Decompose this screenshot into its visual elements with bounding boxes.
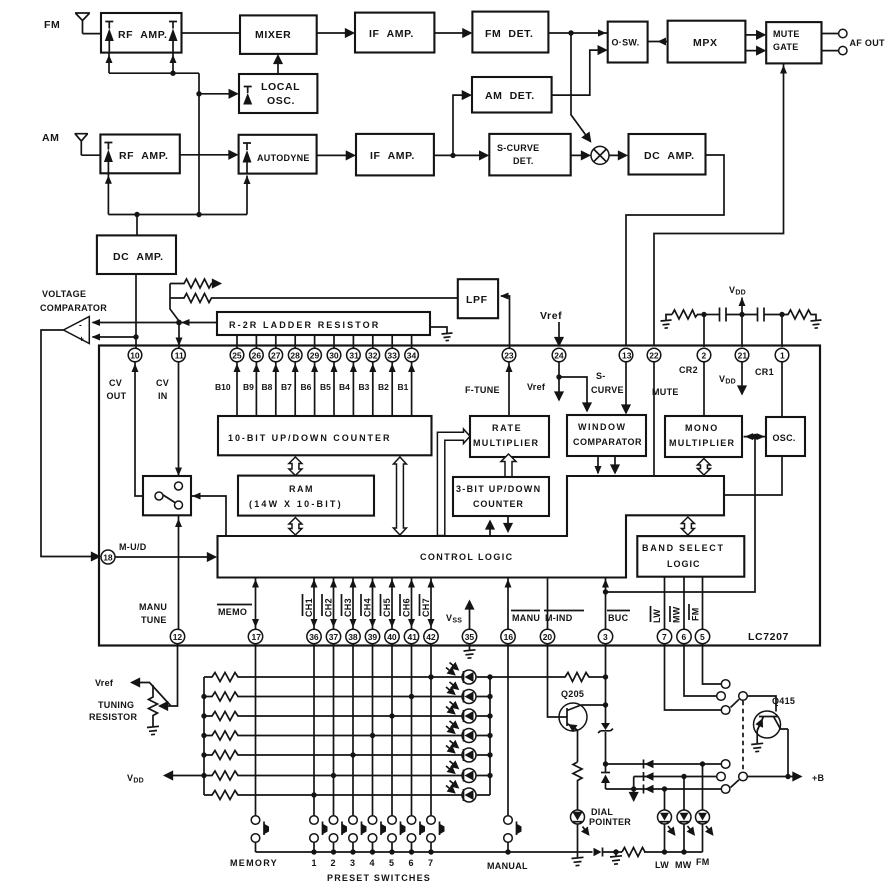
IC LC7207 outline	[99, 346, 820, 646]
wire 3-bit counter to control logic pair	[490, 516, 508, 536]
block MIXER	[240, 15, 317, 54]
wire AM antenna to RF amp	[81, 154, 100, 156]
svg-text:5: 5	[389, 858, 394, 868]
wire comparator non-inverting input	[92, 334, 137, 341]
wire IF AMP (AM) output	[434, 154, 488, 156]
wire pin 2 CR2 to mono multiplier	[703, 362, 705, 416]
transistor Q415	[754, 696, 796, 738]
svg-text:Vref: Vref	[95, 678, 114, 688]
wire band select to pin 5 FM	[702, 577, 704, 630]
switch preset 7	[427, 816, 445, 852]
svg-text:B10: B10	[215, 382, 231, 392]
svg-text:MUTE: MUTE	[652, 387, 679, 397]
svg-text:11: 11	[175, 350, 184, 360]
wire CH4 line pin 39	[369, 578, 376, 630]
wire AM tuning rail	[108, 173, 247, 214]
svg-text:B8: B8	[262, 382, 273, 392]
svg-text:(14W X 10-BIT): (14W X 10-BIT)	[249, 499, 343, 509]
wire comparator output to pin 18	[41, 330, 100, 557]
wire switched line 2 (middle)	[634, 776, 717, 778]
svg-text:RESISTOR: RESISTOR	[89, 712, 137, 722]
svg-text:3: 3	[350, 858, 355, 868]
block DC AMP (left)	[97, 235, 176, 274]
bus arrow 3-bit counter to rate multiplier	[501, 454, 516, 477]
svg-text:+: +	[79, 334, 84, 344]
wire pin 20 M-IND line	[547, 578, 549, 630]
svg-text:6: 6	[409, 858, 414, 868]
svg-text:MANU: MANU	[512, 613, 540, 623]
svg-text:26: 26	[252, 350, 262, 360]
wire pin 3 BUC to control logic	[602, 578, 609, 630]
block IF AMP (FM)	[355, 13, 434, 53]
svg-text:23: 23	[504, 350, 514, 360]
svg-text:MULTIPLIER: MULTIPLIER	[473, 438, 539, 448]
svg-text:+B: +B	[812, 773, 825, 783]
wire S-CURVE DET to mixer node	[571, 154, 590, 156]
resistor R19 (Q205 emitter)	[573, 762, 582, 810]
wire mono multiplier to osc bidirectional	[744, 433, 766, 440]
block RATE MULTIPLIER	[470, 416, 549, 457]
pin 16	[501, 629, 515, 643]
svg-text:DC AMP.: DC AMP.	[644, 150, 695, 162]
svg-text:42: 42	[426, 632, 436, 642]
pin 23	[502, 348, 516, 362]
LED D18 dial pointer	[571, 810, 589, 835]
svg-text:M-U/D: M-U/D	[119, 542, 147, 552]
pin 42	[424, 629, 438, 643]
node BUC column top junction	[603, 674, 608, 679]
resistor R15 (row 5)	[204, 751, 462, 760]
resistor R16 (row 6)	[204, 771, 462, 780]
resistor R11 (row 1)	[204, 673, 462, 682]
wiper arrow into tuning resistor	[160, 705, 172, 707]
wire pin 21 VDD stub	[741, 362, 743, 394]
wire LED cathode bus	[476, 677, 490, 795]
wire pin 7 to band switch LW contact	[665, 644, 722, 710]
node LW label	[651, 606, 663, 623]
block FM DET	[472, 12, 548, 53]
LED D15	[446, 741, 476, 763]
node M-IND label	[544, 611, 584, 624]
svg-text:CONTROL LOGIC: CONTROL LOGIC	[420, 552, 514, 562]
svg-text:RF AMP.: RF AMP.	[119, 150, 169, 162]
node FM label (pin 5)	[689, 604, 701, 621]
wire column pin 40 to preset 5	[391, 644, 393, 816]
wire AM RF AMP to AUTODYNE	[180, 154, 237, 156]
wire comparator inverting input	[92, 319, 180, 326]
svg-text:5: 5	[700, 632, 705, 642]
wire band switch pole to Q415	[747, 696, 776, 712]
resistor R18 (LED bus to BUC)	[490, 673, 606, 682]
svg-text:MULTIPLIER: MULTIPLIER	[669, 438, 735, 448]
svg-text:TUNING: TUNING	[98, 700, 134, 710]
wire column pin 42 to preset 7	[430, 644, 432, 816]
resistor R4 (CR1)	[782, 310, 816, 321]
wire R-2R output to CV IN junction	[181, 319, 217, 326]
node pin 2 junction	[701, 312, 706, 317]
svg-text:7: 7	[428, 858, 433, 868]
wire R-2R ladder taps to pins 25-34	[237, 335, 412, 348]
svg-text:CH5: CH5	[382, 598, 392, 617]
node CV IN junction	[176, 320, 182, 326]
wire VDD to pin 21	[739, 298, 746, 348]
wire tuning bus vertical	[198, 73, 200, 214]
arrowhead into AUTODYNE	[244, 176, 251, 185]
wire Q415 emitter to ground	[756, 731, 758, 745]
node IF AM junction	[450, 153, 455, 158]
svg-text:MANUAL: MANUAL	[487, 861, 528, 871]
wire pin 24 Vref branch	[556, 362, 587, 411]
wire pin 35 Vss stub	[469, 601, 471, 629]
wire pin 13 S-CURVE to window comparator	[625, 362, 627, 413]
terminal AF OUT lower	[822, 46, 848, 54]
svg-text:VDD: VDD	[127, 773, 144, 785]
svg-text:1: 1	[312, 858, 317, 868]
block OSC	[766, 417, 805, 456]
node MW lamp junction	[681, 774, 686, 779]
resistor R12 (row 2)	[204, 692, 462, 701]
resistor R14 (row 4)	[204, 731, 462, 740]
svg-text:34: 34	[407, 350, 417, 360]
block 10-BIT UP/DOWN COUNTER	[218, 416, 432, 455]
pin 31	[347, 348, 361, 362]
switch preset 4	[368, 816, 386, 852]
wire zener to diode	[605, 732, 607, 773]
wire pin 20 to Q205 base	[548, 644, 568, 717]
svg-text:VDD: VDD	[729, 285, 746, 297]
wire CH7 line pin 42	[428, 578, 435, 630]
resistor R13 (row 3)	[204, 712, 462, 721]
svg-text:3: 3	[603, 632, 608, 642]
node matrix junction dots	[311, 674, 433, 797]
svg-text:17: 17	[252, 632, 262, 642]
wire pin 16 MANU line	[505, 578, 512, 630]
pin 7	[657, 629, 671, 643]
svg-text:33: 33	[387, 350, 397, 360]
svg-text:B6: B6	[301, 382, 312, 392]
svg-text:M-IND: M-IND	[545, 613, 573, 623]
block LPF	[458, 279, 498, 318]
svg-text:10: 10	[130, 350, 140, 360]
wire junction down to pin 2	[703, 315, 705, 348]
block 3-BIT UP/DOWN COUNTER	[453, 477, 549, 516]
wire R3 to C1	[704, 314, 720, 316]
block WINDOW COMPARATOR	[567, 415, 646, 456]
svg-text:20: 20	[543, 632, 553, 642]
wire CH3 line pin 38	[350, 578, 357, 630]
pin 28	[288, 348, 302, 362]
wire AUTODYNE to IF AMP (AM)	[317, 154, 355, 156]
diode D23 (line 3)	[644, 785, 654, 794]
svg-text:B2: B2	[378, 382, 389, 392]
svg-text:IF AMP.: IF AMP.	[370, 150, 415, 162]
node FM DET output junction	[568, 30, 573, 35]
wire CH1 line pin 36	[311, 578, 318, 630]
svg-text:13: 13	[622, 350, 632, 360]
pin 6	[677, 629, 691, 643]
wire pin 18 M-U/D to control logic	[115, 556, 216, 558]
svg-text:IN: IN	[158, 391, 168, 401]
tuning resistor VR1 (potentiometer)	[149, 685, 158, 727]
svg-text:38: 38	[348, 632, 358, 642]
pin 18	[101, 550, 115, 564]
pin 39	[365, 629, 379, 643]
pin 12	[170, 629, 184, 643]
op-amp U1 voltage comparator	[64, 317, 90, 344]
svg-text:12: 12	[173, 632, 183, 642]
svg-text:DET.: DET.	[513, 156, 534, 166]
node CH6 label	[400, 594, 412, 617]
wire R-2R right to ground	[430, 327, 447, 333]
LED D24 LW lamp	[658, 789, 675, 852]
svg-text:MW: MW	[675, 860, 692, 870]
svg-text:RATE: RATE	[492, 423, 522, 433]
svg-text:CV: CV	[109, 378, 122, 388]
wire pin 10 CV OUT down to switch	[132, 362, 155, 496]
svg-text:1: 1	[780, 350, 785, 360]
wire pin 5 to band switch FM contact	[703, 644, 722, 684]
ground (R-2R)	[442, 333, 453, 341]
svg-text:CR2: CR2	[679, 365, 698, 375]
pin 1	[775, 348, 789, 362]
resistor R3 (CR2)	[672, 310, 704, 319]
svg-text:MPX: MPX	[693, 37, 718, 49]
svg-text:27: 27	[271, 350, 281, 360]
pin 13	[619, 348, 633, 362]
mixer circle (multiplier)	[591, 146, 609, 164]
band switch S2 (upper)	[717, 680, 748, 715]
block AM RF AMP	[100, 135, 179, 174]
wire pin 12 to tuning resistor wiper	[171, 644, 178, 706]
wire RF AMP to MIXER	[182, 32, 241, 34]
wire junction down to pin 1	[781, 315, 783, 348]
wire pin 22 MUTE down to control logic	[653, 362, 655, 476]
wire DC AMP output to pin 13	[626, 155, 724, 346]
antenna FM	[75, 13, 90, 34]
svg-text:MUTE: MUTE	[773, 29, 800, 39]
wire switched line 1 (upper)	[606, 763, 722, 765]
switch preset 5	[388, 816, 406, 852]
svg-text:DIAL: DIAL	[591, 807, 613, 817]
svg-text:2: 2	[331, 858, 336, 868]
node CH4 label	[361, 594, 373, 617]
wire dial LED to ground	[577, 824, 579, 858]
LED D12	[446, 682, 476, 704]
svg-text:B4: B4	[339, 382, 350, 392]
svg-text:FM: FM	[691, 607, 701, 621]
ground (rail)	[610, 852, 622, 864]
wire DC AMP down to pin 10	[135, 274, 137, 348]
node pin 1 junction	[779, 312, 784, 317]
bus arrow control logic to band select	[681, 517, 694, 535]
wire CH5 line pin 40	[389, 578, 396, 630]
svg-text:MEMORY: MEMORY	[230, 858, 278, 868]
block MONO MULTIPLIER	[665, 416, 742, 457]
svg-text:7: 7	[662, 632, 667, 642]
svg-text:O·SW.: O·SW.	[612, 38, 640, 48]
svg-text:AF OUT: AF OUT	[850, 38, 885, 48]
svg-text:LPF: LPF	[466, 294, 488, 306]
svg-text:2: 2	[702, 350, 707, 360]
LED D14	[446, 721, 476, 743]
wire band switch pole to +B	[747, 776, 801, 778]
svg-text:WINDOW: WINDOW	[578, 422, 627, 432]
svg-text:37: 37	[329, 632, 339, 642]
pin 5	[695, 629, 709, 643]
pin 33	[385, 348, 399, 362]
wire column pin 38 to preset 3	[352, 644, 354, 816]
pin 38	[346, 629, 360, 643]
ground (dial pointer)	[572, 857, 584, 865]
svg-text:VSS: VSS	[446, 613, 462, 625]
switch preset 6	[407, 816, 425, 852]
terminal AF OUT upper	[822, 29, 848, 37]
pin 37	[326, 629, 340, 643]
svg-text:PRESET SWITCHES: PRESET SWITCHES	[327, 873, 431, 883]
svg-text:AM: AM	[42, 132, 60, 144]
varactor D2 (FM RF AMP right)	[169, 22, 178, 53]
block MUTE GATE	[766, 22, 821, 63]
wire pin 23 F-TUNE to rate multiplier	[506, 362, 513, 416]
LED D25 MW lamp	[677, 777, 694, 853]
block DC AMP (AM)	[629, 134, 706, 175]
wire column pin 37 to preset 2	[333, 644, 335, 816]
switch preset 3	[349, 816, 367, 852]
wire FM DET junction down to mixer	[571, 33, 591, 142]
wire tap to LOCAL OSC	[199, 93, 237, 95]
varactor D4 (AM RF AMP)	[104, 143, 113, 174]
diode D27 (rail)	[594, 848, 603, 857]
wire FM RF AMP varactor feeds to tuning rail	[106, 53, 177, 74]
wire Q415 collector to +B line	[787, 729, 789, 777]
svg-text:B7: B7	[281, 382, 292, 392]
svg-text:B3: B3	[359, 382, 370, 392]
svg-text:R-2R LADDER RESISTOR: R-2R LADDER RESISTOR	[229, 320, 380, 330]
wire pin 6 to band switch MW contact	[684, 644, 717, 696]
svg-text:32: 32	[368, 350, 378, 360]
wire ganged switch link (dashed)	[742, 701, 744, 772]
svg-text:Q205: Q205	[561, 689, 584, 699]
wire LPF to pin 23	[500, 293, 510, 349]
svg-text:MANU: MANU	[139, 602, 167, 612]
pin 11	[172, 348, 186, 362]
block AUTODYNE	[239, 135, 317, 174]
wire band select to pin 7 LW	[664, 577, 666, 630]
bus arrow mono multiplier to control logic	[697, 459, 710, 476]
wire switch bottom to pin 12 MANU TUNE	[175, 509, 182, 629]
bus arrow counter to RAM	[289, 457, 302, 476]
svg-text:16: 16	[504, 632, 514, 642]
antenna AM	[75, 134, 89, 156]
bus arrow control logic to rate multiplier (L-shaped)	[437, 429, 470, 536]
svg-text:FM: FM	[44, 19, 60, 31]
wire MPX to MUTE GATE upper	[745, 34, 764, 36]
svg-text:CH1: CH1	[304, 598, 314, 617]
wire pins 25-34 to 10-bit counter	[234, 362, 416, 416]
svg-text:29: 29	[310, 350, 320, 360]
wire LOCAL OSC to MIXER	[277, 56, 279, 75]
varactor D3 (LOCAL OSC)	[243, 87, 252, 105]
pin 17	[248, 629, 262, 643]
svg-text:RAM: RAM	[289, 484, 314, 494]
node BUC line 1 junction	[603, 761, 608, 766]
svg-text:MEMO: MEMO	[218, 607, 247, 617]
wire column pin 36 to preset 1	[313, 644, 315, 816]
varactor D1 (FM RF AMP left)	[105, 22, 114, 53]
wire switched line 3 (lower)	[606, 788, 722, 790]
resistor R17 (row 7)	[204, 791, 462, 800]
diode D20 (BUC column)	[601, 773, 610, 790]
block S-CURVE DET	[489, 134, 570, 176]
svg-text:CH7: CH7	[421, 598, 431, 617]
node +B junction	[785, 774, 790, 779]
block IF AMP (AM)	[356, 134, 434, 176]
resistor R20 (rail)	[622, 848, 645, 857]
node line 3 junctions	[631, 786, 667, 791]
wire Q205 emitter down	[577, 730, 579, 762]
wire Vref tap with arrow	[132, 683, 171, 706]
pin 35	[462, 629, 476, 643]
node CH5 label	[381, 594, 393, 617]
svg-text:CH2: CH2	[324, 598, 334, 617]
LED D17	[446, 781, 476, 803]
resistor R1 (upper)	[170, 279, 221, 288]
node VDD junction	[739, 312, 744, 317]
svg-text:POINTER: POINTER	[589, 817, 631, 827]
svg-text:COUNTER: COUNTER	[473, 499, 524, 509]
wire common cathode rail	[256, 851, 703, 853]
svg-text:-: -	[79, 320, 82, 330]
resistor R2 (lower, to LPF)	[170, 294, 458, 303]
node rail ground junction	[613, 849, 618, 854]
svg-text:Vref: Vref	[527, 382, 546, 392]
svg-text:18: 18	[103, 552, 113, 562]
wire Q205 collector to BUC column	[581, 704, 606, 706]
wire CH2 line pin 37	[330, 578, 337, 630]
block R-2R LADDER RESISTOR	[217, 312, 430, 335]
block BAND SELECT LOGIC	[637, 536, 744, 577]
svg-text:21: 21	[738, 350, 748, 360]
LED D16	[446, 761, 476, 783]
wire VDD arrow to resistor bus	[165, 775, 205, 777]
block LOCAL OSC	[239, 74, 317, 113]
svg-text:FM: FM	[696, 857, 710, 867]
wire osc bottom to control logic	[724, 456, 782, 495]
pin 36	[307, 629, 321, 643]
svg-text:DC AMP.: DC AMP.	[113, 251, 164, 263]
svg-text:F-TUNE: F-TUNE	[465, 385, 500, 395]
svg-text:MIXER: MIXER	[255, 29, 291, 41]
svg-text:BAND SELECT: BAND SELECT	[642, 543, 725, 553]
wire switch to control logic	[191, 493, 226, 537]
wire ground to resistor R3	[666, 315, 672, 321]
LED D13	[446, 702, 476, 724]
svg-text:22: 22	[649, 350, 659, 360]
svg-text:24: 24	[554, 350, 564, 360]
wire O-SW to MPX with left arrow	[648, 38, 668, 46]
ground (CR1 network right)	[811, 320, 822, 328]
node bus junctions	[201, 694, 206, 778]
wire column pin 39 to preset 4	[372, 644, 374, 816]
svg-text:CURVE: CURVE	[591, 385, 624, 395]
node LED bus junctions	[487, 674, 492, 778]
wire junction up to AM DET	[453, 95, 470, 155]
wire memo line pin 17	[252, 578, 259, 630]
ground pin 35	[464, 644, 476, 658]
wire FM antenna to RF amp	[83, 33, 102, 35]
svg-text:OSC.: OSC.	[773, 433, 796, 443]
svg-text:Q415: Q415	[772, 696, 795, 706]
